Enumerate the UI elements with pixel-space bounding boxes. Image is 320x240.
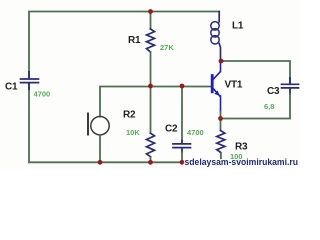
junction node: C2 on base net: [180, 84, 185, 89]
wire: R2 top lead from base net: [150, 87, 152, 134]
junction node: C2 at ground rail: [180, 160, 185, 165]
svg-text:27K: 27K: [160, 43, 174, 52]
wire: top supply rail with left riser: [29, 12, 219, 79]
junction node: microphone at ground rail: [98, 160, 103, 165]
svg-text:6,8: 6,8: [264, 102, 274, 111]
wire: collector node to C3 top: [221, 61, 290, 83]
svg-text:VT1: VT1: [225, 80, 243, 91]
wire: R3 top lead from emitter node: [220, 119, 222, 131]
wire: R2 bottom lead to ground rail: [150, 157, 152, 162]
junction node: R1/R2 on base net: [148, 84, 153, 89]
wire: microphone to ground rail: [99, 135, 101, 163]
wire: R1 bottom lead to base net: [150, 52, 152, 87]
svg-text:C1: C1: [5, 82, 18, 93]
junction node: emitter / R3 / C3: [218, 116, 223, 121]
transistor VT1 emitter arrow: [214, 91, 219, 96]
resistor R2: [147, 133, 155, 157]
wire: R3 bottom lead to ground rail: [220, 154, 222, 163]
junction node: R1 at top rail: [148, 9, 153, 14]
svg-text:10K: 10K: [126, 128, 140, 137]
svg-text:sdelaysam-svoimirukami.ru: sdelaysam-svoimirukami.ru: [185, 157, 299, 167]
microphone BM1: [88, 114, 109, 135]
wire: C2 bottom lead to ground rail: [181, 152, 183, 162]
wire: R1 top lead from rail: [150, 12, 152, 30]
wire: VT1 emitter lead to node: [220, 112, 222, 119]
capacitor C1: [21, 72, 39, 89]
svg-text:4700: 4700: [34, 89, 51, 98]
wire: C3 bottom back to emitter node: [221, 94, 291, 119]
capacitor C2: [173, 141, 191, 153]
resistor R1: [147, 29, 155, 52]
resistor R3: [217, 131, 225, 154]
svg-text:C2: C2: [165, 124, 178, 135]
svg-text:R2: R2: [123, 110, 136, 121]
wire: C2 top lead from base net: [181, 86, 183, 141]
wire: left rail below C1: [28, 83, 30, 162]
junction node: collector / L1 / C3: [219, 59, 224, 64]
wire: base net from microphone to VT1 base: [100, 87, 211, 117]
svg-text:C3: C3: [267, 86, 280, 97]
inductor L1: [211, 12, 221, 62]
svg-text:R3: R3: [235, 142, 248, 153]
transistor VT1: [212, 61, 220, 112]
wire: bottom ground rail: [29, 161, 222, 163]
capacitor C3: [282, 78, 299, 94]
junction node: R2 at ground rail: [148, 160, 153, 165]
svg-text:R1: R1: [128, 35, 141, 46]
svg-text:L1: L1: [232, 21, 244, 32]
svg-text:4700: 4700: [187, 128, 204, 137]
